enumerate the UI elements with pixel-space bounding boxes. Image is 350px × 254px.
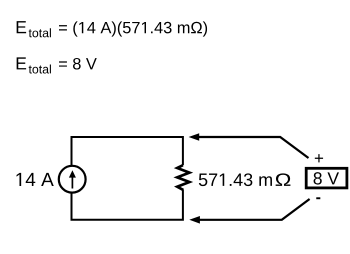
label 8 V	[314, 172, 339, 184]
label Ohm symbol	[276, 173, 291, 186]
label 571.43 m	[199, 173, 272, 186]
equation line 1 subscript total	[29, 28, 51, 37]
equation line 1 variable E	[17, 21, 26, 33]
battery box 8 V	[306, 168, 347, 188]
equation line 2 variable E	[17, 57, 26, 69]
resistor zigzag	[177, 165, 189, 190]
polarity minus	[316, 197, 320, 199]
equation line 2: = 8 V	[59, 58, 97, 70]
current source arrow (points up)	[69, 170, 76, 188]
wire: circuit loop, right side broken for resistor	[72, 137, 183, 220]
current source I circle	[59, 166, 86, 193]
polarity plus	[315, 154, 323, 162]
equation line 1: = (14 A)(571.43 mOhm)	[59, 21, 207, 36]
wire: bottom feedback line with left arrowhead	[189, 199, 309, 224]
equation line 2 subscript total	[29, 64, 51, 73]
wire: top feedback line with left arrowhead	[189, 133, 309, 158]
label 14 A	[17, 173, 54, 186]
